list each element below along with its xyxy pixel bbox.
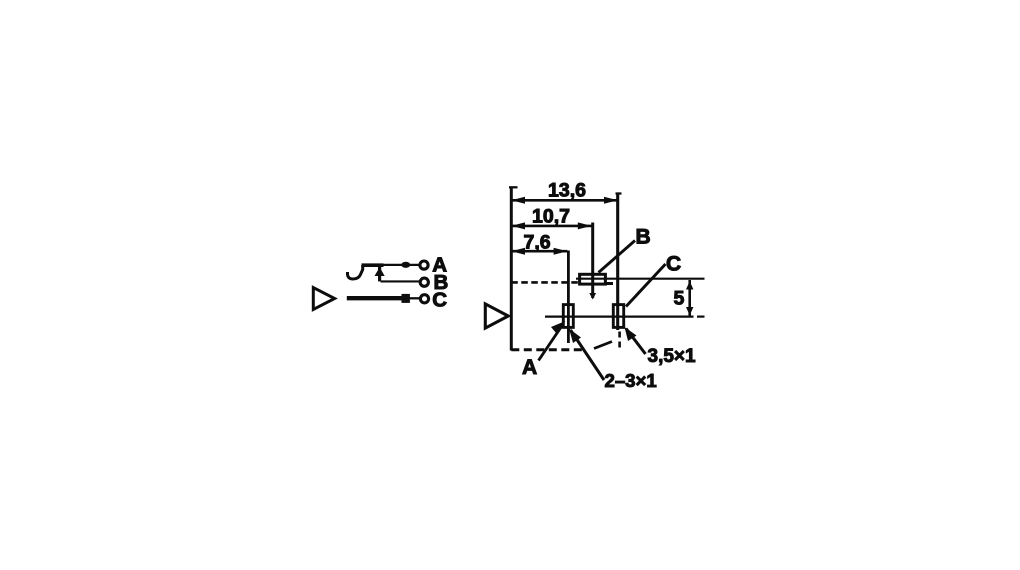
dimension line 13,6: [511, 199, 617, 202]
pad C slot rectangle: [613, 305, 623, 328]
left schematic: sleeve contact line (thick): [347, 296, 402, 300]
svg-text:10,7: 10,7: [532, 205, 570, 227]
dash stub right of pad B: [606, 282, 614, 285]
extension line at 7,6 (through pad A): [567, 251, 570, 344]
dashed continuation below pad C: [618, 332, 621, 348]
dashed centerline of pad B row: [511, 281, 580, 284]
svg-text:A: A: [522, 356, 537, 379]
footprint: left datum extension line: [510, 187, 513, 351]
svg-text:B: B: [636, 225, 651, 248]
footprint: insertion direction triangle marker: [485, 304, 508, 328]
left schematic: moving contact bar (thick): [362, 263, 384, 267]
svg-text:5: 5: [674, 288, 685, 310]
left datum top tick: [509, 186, 518, 188]
pad A slot rectangle: [563, 305, 573, 328]
down arrowhead terminating 10,7 extension: [589, 293, 596, 300]
wire to terminal B: [381, 280, 421, 282]
dimension line 7,6: [511, 250, 567, 253]
leader line for 3,5x1 with arrowhead: [626, 329, 646, 355]
svg-text:C: C: [666, 252, 681, 275]
wire to terminal A: [383, 264, 420, 266]
node dot on wire A: [401, 262, 410, 268]
break contact vertical wire with actuation arrow: [378, 266, 381, 282]
tick on 13,6 extension top: [616, 192, 622, 194]
terminal B open circle: [420, 278, 428, 286]
extension line at 10,7 (through pad B): [591, 223, 594, 299]
dimension 5 vertical line: [688, 280, 691, 317]
svg-text:13,6: 13,6: [548, 180, 586, 202]
dashed outline corner step up to pad C: [594, 342, 612, 349]
terminal A open circle: [420, 261, 428, 269]
svg-text:3,5×1: 3,5×1: [648, 346, 697, 367]
leader line for label A with arrowhead: [539, 324, 564, 361]
left schematic: tip spring hook contact: [348, 265, 363, 279]
solid centerline of pads A and C row: [545, 316, 694, 318]
svg-text:2–3×1: 2–3×1: [605, 370, 657, 391]
dashed body outline bottom: [511, 348, 586, 351]
svg-text:7,6: 7,6: [524, 232, 551, 254]
leader line for label C: [626, 264, 666, 307]
leader line for 2-3x1 with arrowhead: [571, 330, 605, 380]
pad B slot rectangle: [580, 274, 606, 284]
terminal C open circle: [420, 295, 428, 303]
extension line at 13,6 (through pad C): [616, 193, 619, 330]
leader line for label B: [599, 241, 636, 273]
thin solid line through pad B extending right: [576, 278, 705, 280]
svg-text:C: C: [432, 289, 447, 312]
wire to terminal C: [410, 297, 420, 299]
left schematic: jack symbol triangle marker: [313, 288, 334, 310]
sleeve terminal square: [402, 294, 410, 303]
dimension line 10,7: [511, 225, 591, 228]
